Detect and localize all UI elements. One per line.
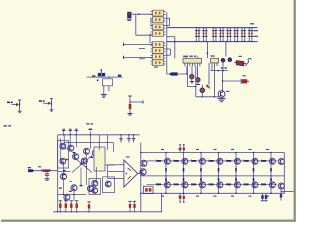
capacitor C9 rail xyxy=(75,129,78,135)
wire right bracket A xyxy=(165,18,169,25)
zener D13 cluster xyxy=(39,99,54,112)
capacitor C12 top xyxy=(127,134,130,143)
resistor tick R2 xyxy=(66,159,69,160)
wire base bus top xyxy=(147,160,277,162)
wire U3 pin down xyxy=(211,66,213,71)
wire internal bus xyxy=(64,142,113,144)
output column 4 bottom xyxy=(209,176,219,194)
capacitor C6 polarized xyxy=(200,85,205,97)
wire U4 output xyxy=(138,173,141,175)
label B201 xyxy=(196,196,199,197)
resistor R5 emitter xyxy=(59,201,62,212)
output column 2 bottom xyxy=(174,176,184,194)
resistor tick R3 xyxy=(73,152,76,153)
optocoupler U1F xyxy=(151,48,166,54)
output transistor QB2 xyxy=(182,182,188,188)
wire left rail drop xyxy=(57,135,59,212)
resistor network RZ xyxy=(143,186,153,193)
transistor Q10 xyxy=(88,186,94,192)
output transistor QB7 xyxy=(269,182,275,188)
transistor Q11 xyxy=(92,180,98,186)
label T184 xyxy=(179,149,182,150)
wire mid row xyxy=(58,161,71,174)
label T254 xyxy=(249,149,252,150)
capacitor C13 top xyxy=(132,134,135,143)
resistor tick R12 xyxy=(80,185,83,186)
fuse F1 xyxy=(234,61,246,66)
matched pair box L xyxy=(58,141,69,169)
optocoupler U1G xyxy=(151,54,166,60)
output column 3 top xyxy=(191,152,201,177)
capacitor C10 bottom xyxy=(128,201,131,212)
IC U3 xyxy=(211,58,219,66)
resistor tick R11 xyxy=(69,191,72,192)
ground Q13 xyxy=(218,97,226,101)
resistor R30 zobel xyxy=(261,193,268,201)
resistor tick R10 xyxy=(90,157,93,158)
wire Q risers xyxy=(64,135,99,150)
wire triangle inputs xyxy=(108,165,124,179)
wire right column xyxy=(105,135,115,165)
LED D10 xyxy=(228,58,232,62)
output column 1 bottom xyxy=(156,176,166,194)
transistor Q8 xyxy=(61,174,67,180)
label U3 text xyxy=(211,55,215,56)
wire diff cross A xyxy=(72,156,92,173)
output column 7 top xyxy=(261,152,271,177)
capacitor C7 rail xyxy=(62,129,65,135)
wire U2 pin2 join xyxy=(186,66,188,75)
transistor Q1 xyxy=(68,145,74,151)
optocoupler U1C xyxy=(151,24,166,30)
capacitor C5 xyxy=(241,79,249,84)
resistor tick R4 xyxy=(80,163,83,164)
label C5 dash xyxy=(243,75,246,76)
output transistor QT3 xyxy=(199,158,205,164)
output transistor QT2 xyxy=(182,158,188,164)
capacitor C14 supply xyxy=(179,144,181,153)
label U2 pin dash xyxy=(154,67,158,68)
wire Q1 base xyxy=(60,138,67,162)
zener D12 cluster xyxy=(7,100,22,113)
transistor Q14 xyxy=(92,188,98,194)
label +V xyxy=(86,123,93,135)
capacitor C3 polarized xyxy=(190,66,194,83)
transistor Q13 xyxy=(218,91,225,98)
diode pair D4 xyxy=(219,28,224,42)
wire left stub IN3 xyxy=(124,43,153,46)
wire Q13 base xyxy=(214,66,216,97)
diode pair D1 xyxy=(195,28,200,42)
capacitor C17 supply xyxy=(183,193,185,203)
LED D9 xyxy=(221,58,225,62)
transistor Q15 predriver xyxy=(141,160,147,166)
output transistor QB6 xyxy=(252,182,258,188)
IC U2 xyxy=(183,57,202,67)
wire bottom return xyxy=(196,96,220,97)
capacitor C1 input xyxy=(44,170,49,180)
output connector J2 xyxy=(280,190,294,201)
rail output mid xyxy=(140,175,284,177)
optocoupler U1E xyxy=(151,42,166,48)
capacitor C18 xyxy=(119,134,122,143)
optocoupler U1A xyxy=(151,10,166,16)
wire bus to U2 xyxy=(207,42,209,58)
wire lower links xyxy=(58,155,97,201)
output column 5 top xyxy=(226,152,236,177)
transistor Q6 xyxy=(81,158,87,164)
diode pair D8 xyxy=(248,28,253,42)
resistor R7 emitter xyxy=(70,201,73,212)
grid end bar upper xyxy=(254,30,259,32)
diode pair D2 xyxy=(202,28,207,42)
transistor Q7 xyxy=(99,156,105,162)
diode pair D5 xyxy=(226,28,231,42)
resistor R8 emitter xyxy=(75,201,78,212)
wire left bracket pair1 xyxy=(150,18,152,26)
label IN dash xyxy=(38,166,41,167)
input arrow IN xyxy=(28,167,35,172)
output transistor QT5 xyxy=(234,158,240,164)
wire left stub IN4 xyxy=(124,56,153,59)
resistor tick R13 xyxy=(59,187,62,188)
transistor Q4 xyxy=(73,154,79,160)
inductor L1 xyxy=(246,59,252,66)
bus wire lower xyxy=(167,41,258,43)
transistor Q2 xyxy=(84,148,90,154)
stub label A xyxy=(139,48,145,50)
output column 3 bottom xyxy=(191,176,201,194)
output transistor QT7 xyxy=(269,158,275,164)
page border right xyxy=(294,0,296,222)
label U4 dash xyxy=(126,156,130,157)
rail output bottom xyxy=(140,192,284,194)
capacitor C8 rail xyxy=(69,129,72,135)
wire output node riser xyxy=(140,143,142,212)
wire U2 pin7 down xyxy=(195,66,197,97)
resistor R6 emitter xyxy=(64,201,67,212)
wire net feed from stack xyxy=(167,65,187,74)
diode pair D3 xyxy=(212,28,217,42)
output transistor QT1 xyxy=(164,158,170,164)
wire output right edge xyxy=(283,153,285,194)
grid end bar lower xyxy=(254,35,259,37)
wire bus to LED xyxy=(225,42,227,57)
capacitor C16 supply xyxy=(179,193,181,203)
resistor R20 chain xyxy=(128,96,144,116)
transistor QL2 xyxy=(60,158,66,164)
transistor Q12 xyxy=(64,194,70,200)
optocoupler U1H xyxy=(151,60,166,66)
wire inner drop xyxy=(80,168,82,186)
wire to U1B pair xyxy=(136,34,153,36)
label T236 xyxy=(231,149,234,150)
diode pair D6 xyxy=(234,28,239,42)
output transistor QB1 xyxy=(164,182,170,188)
transistor Q3 xyxy=(92,150,98,156)
label B218 xyxy=(214,196,217,197)
label VCC xyxy=(4,125,11,126)
wire bottom right riser xyxy=(161,193,163,212)
output transistor QB8 xyxy=(278,183,284,189)
diode D11 xyxy=(206,63,210,88)
output column 4 top xyxy=(209,152,219,177)
wire diff cross B xyxy=(72,156,92,173)
junction dot xyxy=(138,13,140,15)
transistor Q9 xyxy=(71,185,77,191)
label B254 xyxy=(249,196,252,197)
output transistor QT6 xyxy=(252,158,258,164)
optocoupler U1B xyxy=(151,17,166,23)
output column 6 top xyxy=(244,152,254,177)
diode pair D7 xyxy=(241,28,246,42)
label T271 xyxy=(266,149,269,150)
resistor R1 xyxy=(42,169,50,172)
label D9 dash xyxy=(239,56,242,57)
transistor Q16 predriver xyxy=(140,169,146,175)
label T218 xyxy=(214,149,217,150)
wire right bracket B xyxy=(165,49,170,55)
output column 5 bottom xyxy=(226,176,236,194)
capacitor C4 polarized xyxy=(196,66,200,84)
transistor QC1 xyxy=(105,181,111,187)
output transistor QB3 xyxy=(199,182,205,188)
page border bottom xyxy=(1,220,296,222)
stub label B xyxy=(139,58,145,60)
wire horizontal mid xyxy=(211,70,228,72)
connector J1 xyxy=(127,12,132,21)
wire base bus bottom xyxy=(147,183,277,185)
wire pin3 branch xyxy=(187,66,196,87)
label marks xyxy=(221,67,227,68)
rail V+ top xyxy=(58,134,140,136)
bus wire upper xyxy=(167,27,258,29)
wire stack right bus xyxy=(166,12,168,65)
rail bottom left xyxy=(53,211,162,212)
capacitor C15 supply xyxy=(183,144,185,153)
output column 6 bottom xyxy=(244,176,254,194)
transistor QL1 xyxy=(60,143,66,149)
output column 1 top xyxy=(156,152,166,177)
wire input xyxy=(34,170,57,172)
trimmer VR1 cluster xyxy=(87,69,123,81)
output transistor QB4 xyxy=(217,182,223,188)
driver U4 triangle xyxy=(124,160,138,187)
label net top xyxy=(250,23,254,24)
wire right riser xyxy=(167,37,176,59)
matched pair box C xyxy=(103,177,115,193)
output column 7 bottom xyxy=(261,176,271,194)
capacitor C11 bottom xyxy=(133,201,136,212)
label Q13 dash xyxy=(226,91,229,92)
label B271 xyxy=(266,196,269,197)
output transistor QT8 xyxy=(278,159,284,165)
relay K1 box xyxy=(103,76,113,94)
matched pair box A xyxy=(94,147,105,171)
ground K1 xyxy=(101,95,107,98)
label T166 xyxy=(161,149,164,150)
net label arrow xyxy=(169,72,177,75)
optocoupler U1D xyxy=(151,31,166,37)
matched pair box B xyxy=(89,179,101,195)
wire to C5 xyxy=(222,71,241,91)
label T201 xyxy=(196,149,199,150)
label U2 text xyxy=(183,56,197,57)
wire J1 to U1A xyxy=(131,13,152,15)
output column 2 top xyxy=(174,152,184,177)
wire left bracket pair2 xyxy=(149,34,151,43)
label B166 xyxy=(161,196,164,197)
wire vertical feed xyxy=(135,14,137,35)
label B236 xyxy=(231,196,234,197)
output transistor QB5 xyxy=(234,182,240,188)
rail output top xyxy=(140,152,284,154)
output transistor QT4 xyxy=(217,158,223,164)
resistor R9 emitter xyxy=(87,202,90,212)
diode marks DM xyxy=(63,170,66,175)
wire LED down xyxy=(222,62,224,70)
label B184 xyxy=(179,196,182,197)
